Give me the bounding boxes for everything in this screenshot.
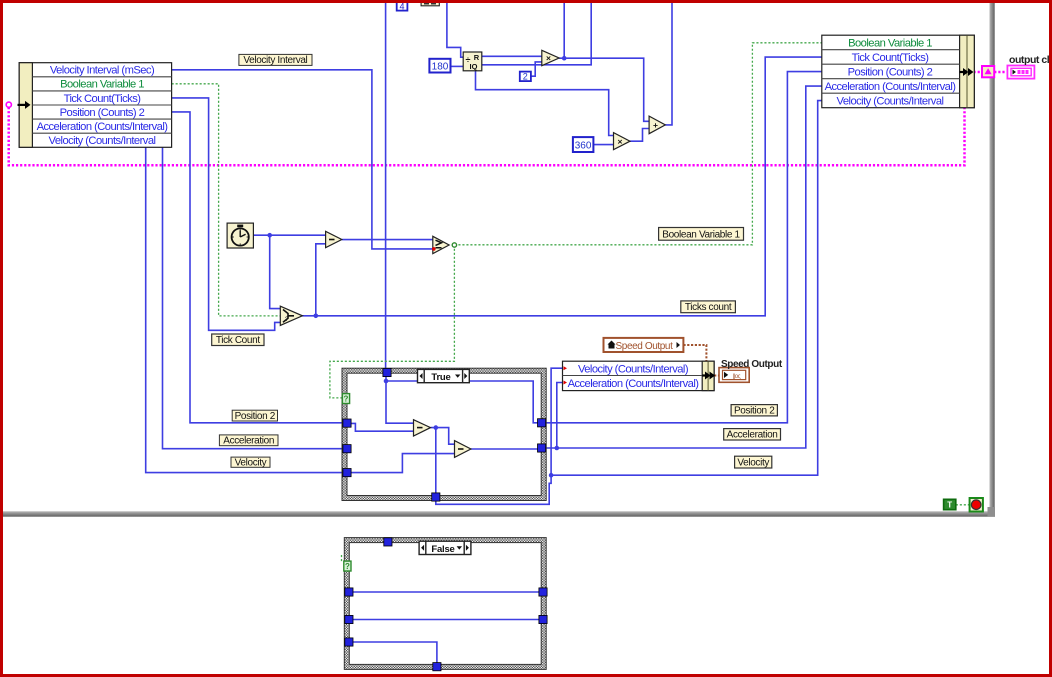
svg-text:2: 2 (523, 72, 528, 82)
constant 360 (573, 137, 594, 152)
svg-text:Tick Count: Tick Count (216, 335, 260, 346)
velocity label left (231, 457, 270, 468)
junction dot select output (314, 314, 319, 319)
svg-text:Position (Counts) 2: Position (Counts) 2 (60, 107, 145, 119)
wire velocity interval row1 to greater-equal lower input (172, 70, 433, 249)
svg-text:Tick Count(Ticks): Tick Count(Ticks) (852, 52, 930, 64)
while loop right border (990, 3, 995, 507)
wire constant 2 to multiply1 lower input (531, 62, 542, 76)
svg-text:?: ? (344, 395, 349, 404)
svg-text:Position 2: Position 2 (235, 411, 276, 422)
pink input circle (6, 102, 11, 107)
sub2 node inside case (455, 441, 471, 458)
wire acceleration branch up to speed node row2 (557, 383, 563, 449)
svg-text:False: False (431, 544, 454, 555)
wire acceleration long to bundle row4 (545, 86, 822, 448)
false case tunnels (345, 538, 547, 671)
svg-text:Acceleration (Counts/Interval): Acceleration (Counts/Interval) (825, 81, 957, 93)
ticks count label (681, 301, 736, 313)
wire multiply1 output junction up to top (559, 2, 564, 58)
position 2 label right (731, 405, 777, 417)
greater-equal boolean output dot (452, 243, 456, 247)
wire position row4 to true case left tunnel1 (172, 112, 343, 423)
speed bundle output double arrow (702, 372, 715, 380)
constant 180 (429, 59, 450, 73)
wire position vertical from top to case top tunnel (385, 2, 387, 372)
wire clock branch down to select t input (270, 235, 280, 308)
bundle output double arrow (960, 68, 974, 76)
svg-text:Velocity Interval (mSec): Velocity Interval (mSec) (50, 65, 155, 77)
svg-text:Velocity (Counts/Interval: Velocity (Counts/Interval (49, 135, 156, 147)
junction dot clock output (267, 233, 272, 238)
svg-text:Velocity (Counts/Interval): Velocity (Counts/Interval) (578, 363, 689, 375)
tick count clock node (227, 223, 253, 248)
wire velocity long to bundle row5 (551, 101, 822, 476)
cut node at top (421, 0, 439, 6)
add node (649, 116, 665, 134)
wire quotient IQ output right and up to top (482, 2, 591, 65)
wire select output branch up to subtract lower input (316, 244, 326, 316)
wire sub1 output to sub2 top input (431, 428, 455, 445)
true case structure (342, 368, 546, 500)
wire bottom tunnel velocity up to long wire (436, 475, 551, 504)
wire constant 360 to multiply2 lower input (593, 144, 613, 146)
svg-text:Position (Counts) 2: Position (Counts) 2 (848, 66, 933, 78)
wire tick count row3 to select f input (172, 98, 281, 330)
wire inside case from top tunnel to right tunnel1 (386, 375, 538, 423)
junction dot true case top tunnel inside (384, 379, 389, 384)
wire boolean green down to true case selector (330, 245, 455, 398)
svg-text:?: ? (345, 562, 350, 571)
svg-text:output cl: output cl (1009, 54, 1050, 66)
false case selector label (419, 541, 471, 555)
output cluster indicator (1007, 66, 1034, 79)
svg-text:R: R (474, 53, 480, 62)
wire false case row1 (352, 591, 539, 593)
junction dot velocity branch (549, 473, 554, 478)
acceleration label left (219, 435, 278, 447)
wire velocity row6 to true case left tunnel3 (146, 146, 343, 472)
svg-text:×: × (546, 53, 551, 63)
wire inside case left tunnel3 to sub2 lower input (350, 454, 455, 473)
wire multiply1 output to add top input (564, 58, 649, 121)
boolean variable 1 label (659, 228, 744, 241)
svg-text:Acceleration: Acceleration (727, 430, 778, 441)
wire add output up to top (665, 2, 672, 125)
svg-text:Tick Count(Ticks): Tick Count(Ticks) (64, 93, 142, 105)
wire multiply2 output to add lower input (630, 129, 649, 142)
true case tunnels (343, 368, 546, 501)
wire false case row3 to bottom tunnel (352, 642, 437, 663)
unbundle by name node (19, 63, 171, 148)
sub1 node inside case (414, 420, 431, 436)
subtract node top (326, 231, 342, 247)
wire quotient R output to multiply1 top input (482, 55, 542, 57)
svg-text:T: T (947, 501, 952, 510)
svg-text:Boolean Variable 1: Boolean Variable 1 (60, 79, 144, 91)
svg-text:Position 2: Position 2 (734, 406, 775, 417)
coercion dot on greater-equal input (432, 247, 436, 251)
false case question terminal (344, 561, 351, 571)
while loop bottom border (3, 511, 995, 516)
wire pink cluster from input circle to right bundle (9, 107, 965, 165)
svg-text:Acceleration (Counts/Interval): Acceleration (Counts/Interval) (37, 121, 169, 133)
svg-text:Boolean Variable 1: Boolean Variable 1 (848, 37, 932, 49)
velocity label right (735, 456, 772, 468)
wire quotient bottom output to multiply2 top input (476, 71, 614, 136)
loop condition stop terminal (970, 498, 983, 512)
junction dot multiply1 output (562, 56, 567, 61)
wire clock output to subtract top input (253, 234, 325, 236)
wire boolean green from greater-equal to right bundle row1 (454, 43, 821, 245)
speed output property icon (719, 368, 749, 383)
wire velocity branch up to speed node row1 (551, 368, 562, 475)
acceleration label right (724, 429, 781, 441)
wire false case row2 (352, 619, 539, 621)
greater-equal node (433, 236, 449, 253)
wire select output long to bundle row2 ticks (302, 57, 822, 316)
svg-text:+: + (653, 120, 658, 130)
true constant node (944, 499, 956, 509)
svg-text:Velocity (Counts/Interval: Velocity (Counts/Interval (837, 95, 944, 107)
right bundle by name node (822, 35, 975, 108)
speed output bundle node (563, 361, 715, 390)
speed output reference node (604, 338, 684, 352)
svg-text:IQ: IQ (470, 62, 478, 71)
svg-text:Speed Output: Speed Output (616, 341, 674, 352)
wire inside case left tunnel1 to sub1 lower input (350, 423, 414, 431)
svg-text:×: × (618, 136, 623, 146)
wire pink bundle to tunnel (974, 71, 983, 74)
quotient remainder node (463, 52, 482, 71)
svg-text:360: 360 (575, 141, 592, 152)
true case selector label (418, 369, 470, 383)
while loop corner step (988, 507, 996, 517)
svg-text:True: True (431, 372, 450, 383)
wire top feed to quotient node x input (447, 2, 463, 57)
wire pink tunnel to indicator (994, 71, 1007, 74)
wire sub1 output down to bottom tunnel (435, 428, 437, 497)
select node (280, 306, 302, 325)
svg-text:Velocity: Velocity (737, 458, 769, 469)
wire inside case position down to sub1 top input (386, 381, 414, 423)
tick count label (212, 334, 264, 346)
false case structure (344, 538, 546, 670)
velocity interval label (239, 54, 312, 66)
wire green stop constant to loop condition (956, 504, 970, 506)
wire green stub at false case selector (341, 555, 343, 562)
constant 4 (397, 1, 408, 11)
true case question terminal (342, 394, 349, 404)
svg-text:Ticks count: Ticks count (685, 302, 732, 313)
wire boolean row2 green dashed to select s input (172, 84, 281, 316)
wire position2 long to bundle row3 (545, 72, 822, 423)
unbundle input arrow (18, 101, 31, 109)
wire acceleration row5 to true case left tunnel2 (163, 146, 343, 448)
svg-text:Speed Output: Speed Output (721, 359, 783, 370)
wire sub2 output to right tunnel2 (471, 448, 538, 450)
svg-text:180: 180 (432, 62, 449, 73)
svg-text:ɭɭος: ɭɭος (733, 374, 741, 380)
wire brown speed node to property icon (714, 375, 719, 377)
svg-text:?: ? (285, 316, 289, 323)
pink tunnel on loop border (982, 66, 994, 77)
svg-text:Velocity: Velocity (235, 457, 267, 468)
junction dot acceleration branch (555, 446, 560, 451)
wire constant 180 to quotient y input (451, 65, 464, 67)
multiply node X1 (542, 50, 559, 65)
position 2 label left (232, 410, 277, 422)
svg-text:Acceleration: Acceleration (223, 436, 274, 447)
wire subtract output to greater-equal top input (342, 239, 433, 241)
svg-text:Velocity Interval: Velocity Interval (243, 55, 307, 66)
multiply node X2 (614, 133, 631, 150)
constant 2 (520, 72, 531, 82)
wire brown refnum to speed node top (683, 345, 706, 361)
junction dot sub1 output (434, 425, 439, 430)
svg-text:Acceleration (Counts/Interval): Acceleration (Counts/Interval) (568, 378, 700, 390)
svg-text:Boolean Variable 1: Boolean Variable 1 (662, 229, 740, 240)
